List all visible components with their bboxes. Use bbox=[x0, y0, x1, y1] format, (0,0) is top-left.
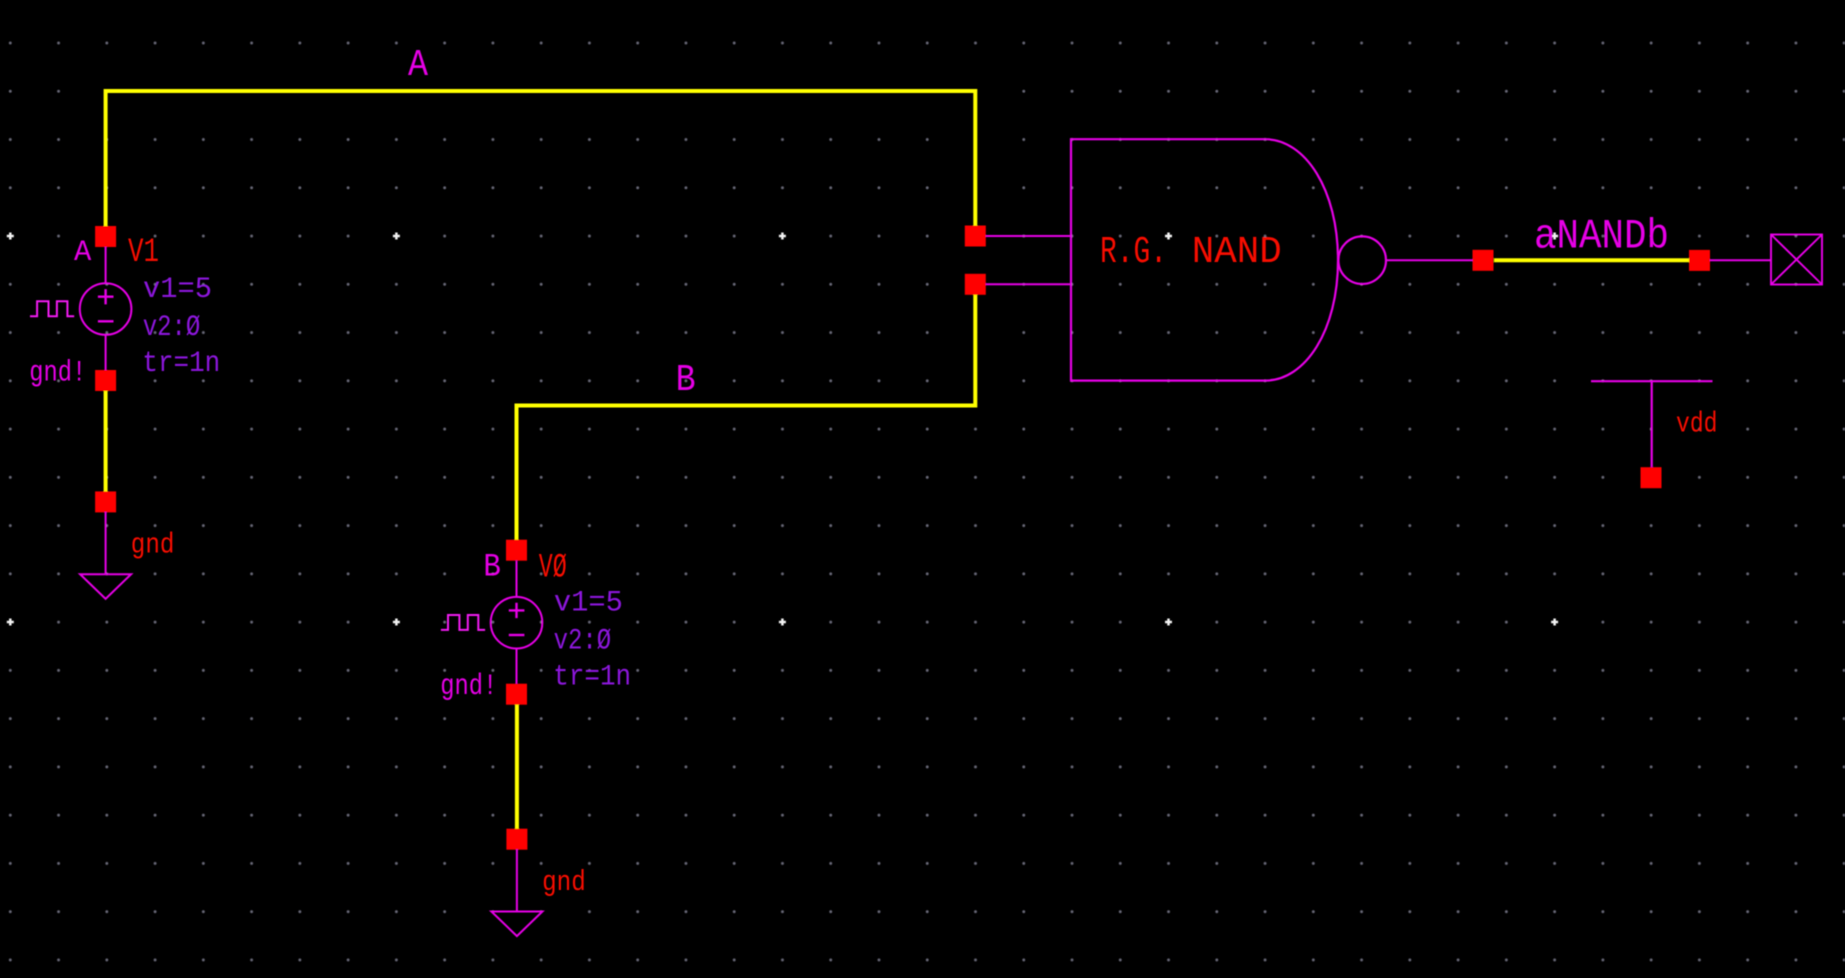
pin square NAND input b bbox=[965, 274, 986, 295]
ground symbol gnd (V0 branch) bbox=[491, 829, 585, 936]
pin square NAND input a bbox=[965, 226, 986, 247]
svg-text:aNANDb: aNANDb bbox=[1534, 213, 1669, 261]
wire net B bbox=[517, 284, 976, 550]
pin square output right bbox=[1689, 250, 1710, 271]
voltage source V0 bbox=[440, 540, 631, 705]
svg-text:B: B bbox=[483, 549, 501, 586]
voltage source V1 bbox=[29, 226, 220, 391]
svg-text:R.G.: R.G. bbox=[1100, 231, 1167, 274]
pin square output left bbox=[1473, 250, 1494, 271]
wire NAND output to net square bbox=[1386, 259, 1473, 261]
svg-text:B: B bbox=[676, 359, 696, 402]
wire net A bbox=[106, 91, 976, 238]
vdd supply symbol bbox=[1591, 381, 1718, 488]
wire to output terminal bbox=[1700, 259, 1771, 261]
wire V0 to ground bbox=[515, 695, 519, 839]
wire stub NAND input b bbox=[975, 283, 1071, 285]
output terminal box (X) bbox=[1771, 235, 1822, 285]
wire V1 to ground bbox=[104, 381, 108, 502]
wire stub NAND input a bbox=[975, 235, 1071, 237]
svg-text:VØ: VØ bbox=[539, 550, 567, 588]
svg-text:A: A bbox=[74, 236, 91, 270]
ground symbol gnd (V1 branch) bbox=[80, 491, 174, 598]
grid major crosses bbox=[7, 233, 1558, 626]
svg-text:vdd: vdd bbox=[1676, 408, 1718, 441]
wire net aNANDb bbox=[1494, 258, 1690, 262]
svg-text:NAND: NAND bbox=[1192, 231, 1282, 274]
NAND gate R.G. NAND bbox=[1071, 139, 1386, 380]
svg-text:A: A bbox=[408, 44, 428, 87]
svg-text:V1: V1 bbox=[128, 234, 159, 272]
